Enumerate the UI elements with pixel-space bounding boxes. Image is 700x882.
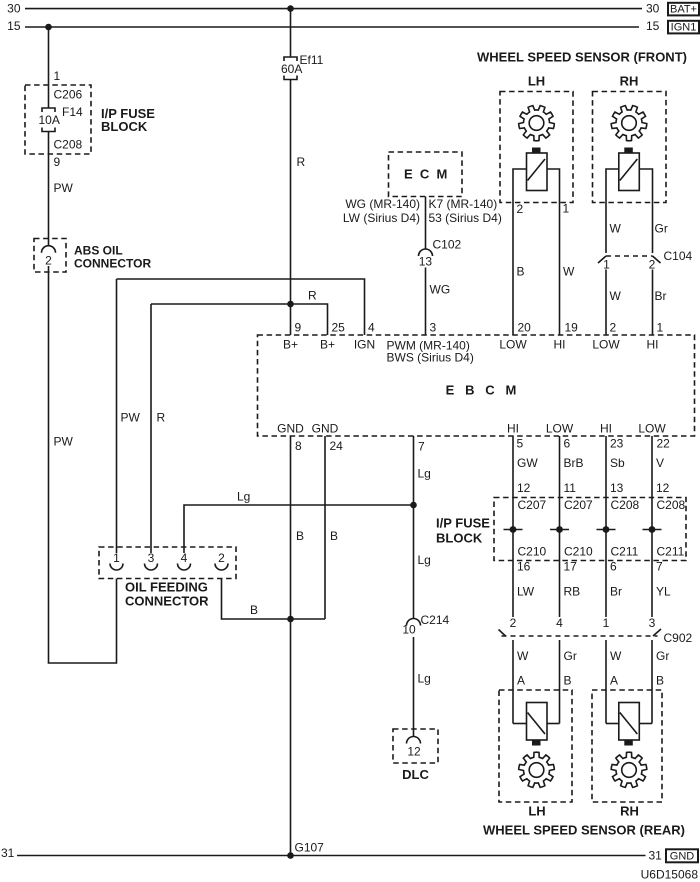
svg-text:C214: C214 — [421, 613, 450, 627]
svg-text:B: B — [250, 603, 258, 617]
svg-text:GND: GND — [670, 850, 695, 862]
LH front tone wheel (gear) — [519, 106, 555, 141]
svg-text:10A: 10A — [39, 113, 60, 127]
svg-text:Gr: Gr — [656, 649, 669, 663]
wire label Gr — [564, 649, 577, 663]
title WHEEL SPEED SENSOR (REAR) — [483, 822, 685, 837]
label RH — [620, 74, 639, 89]
svg-text:4: 4 — [181, 551, 188, 565]
wire label Sb — [610, 456, 625, 470]
pin 7 number — [418, 440, 425, 454]
wire EBCM pin to I/P fuse block col 4 — [651, 436, 653, 617]
svg-text:B+: B+ — [320, 338, 335, 352]
wire bottom elbow to oil feeding pin 1 — [49, 579, 117, 664]
svg-text:13: 13 — [610, 481, 624, 495]
connector C210 label — [518, 545, 547, 559]
DLC pin 12 (arc) — [407, 737, 421, 759]
svg-text:25: 25 — [332, 321, 346, 335]
svg-text:F14: F14 — [62, 105, 83, 119]
svg-text:12: 12 — [656, 481, 670, 495]
wire label PW — [121, 411, 141, 425]
wire EBCM pin to I/P fuse block col 3 — [605, 436, 607, 617]
svg-text:IGN: IGN — [354, 338, 375, 352]
svg-text:U6D15068: U6D15068 — [641, 868, 699, 882]
pin name HI — [507, 422, 519, 436]
wire EBCM pin to I/P fuse block col 2 — [559, 436, 561, 617]
pin 4 number — [368, 321, 375, 335]
svg-text:C210: C210 — [564, 545, 593, 559]
svg-text:R: R — [308, 289, 317, 303]
wire R branch to pin 25 — [151, 304, 328, 335]
svg-text:C210: C210 — [518, 545, 547, 559]
svg-text:17: 17 — [564, 560, 578, 574]
junction B wires — [287, 616, 294, 623]
svg-text:W: W — [610, 649, 622, 663]
label K7 (MR-140) — [429, 197, 498, 211]
svg-text:BAT+: BAT+ — [670, 4, 697, 16]
wire label BrB — [564, 456, 584, 470]
wire RH HI to pin 1 — [652, 270, 654, 336]
svg-text:Sb: Sb — [610, 456, 625, 470]
I/P FUSE BLOCK label (left) — [101, 106, 155, 134]
splice junction col 3 — [597, 526, 616, 533]
svg-text:1: 1 — [603, 616, 610, 630]
wire label Br — [610, 585, 622, 599]
svg-text:12: 12 — [407, 745, 421, 759]
wire label B — [250, 603, 258, 617]
ground G107 label — [295, 841, 325, 855]
junction bus30/Ef11 — [287, 5, 294, 12]
svg-text:Br: Br — [655, 289, 667, 303]
wire label Lg — [237, 490, 250, 504]
wire PW down-left — [48, 266, 50, 663]
wire label GW — [517, 456, 538, 470]
EBCM label — [446, 382, 527, 397]
pin 13 number — [610, 481, 624, 495]
svg-text:19: 19 — [565, 321, 579, 335]
svg-text:IGN1: IGN1 — [671, 22, 697, 34]
label box IGN1 — [668, 21, 699, 34]
wire ECM to C102 — [425, 197, 427, 250]
pin name LOW — [546, 422, 574, 436]
svg-text:3: 3 — [430, 321, 437, 335]
svg-text:LH: LH — [528, 74, 545, 89]
pin name GND — [312, 422, 339, 436]
svg-text:1: 1 — [563, 202, 570, 216]
svg-text:C208: C208 — [54, 138, 83, 152]
svg-text:Lg: Lg — [418, 553, 431, 567]
svg-text:Ef11: Ef11 — [300, 53, 324, 67]
svg-text:B: B — [296, 529, 304, 543]
splice junction col 2 — [550, 526, 569, 533]
LH pin 1 label — [563, 202, 570, 216]
svg-text:9: 9 — [295, 321, 302, 335]
svg-text:HI: HI — [507, 422, 519, 436]
svg-text:22: 22 — [657, 437, 671, 451]
svg-text:I/P FUSE: I/P FUSE — [436, 516, 490, 531]
svg-text:16: 16 — [517, 560, 531, 574]
junction bus15/F14 branch — [45, 24, 52, 31]
svg-text:LOW: LOW — [592, 338, 620, 352]
svg-text:8: 8 — [295, 439, 302, 453]
wire label PW — [54, 435, 74, 449]
junction G107 on bus 31 — [287, 852, 294, 859]
wire label W — [610, 222, 622, 236]
svg-text:BLOCK: BLOCK — [436, 531, 483, 546]
oil feeding pin 1 — [110, 551, 123, 570]
LH rear wheel speed sensor — [527, 703, 548, 746]
svg-text:HI: HI — [554, 338, 566, 352]
pin 23 number — [610, 437, 624, 451]
svg-text:23: 23 — [610, 437, 624, 451]
bus 30 (BAT+) — [7, 2, 660, 16]
connector C208 label — [54, 138, 83, 152]
pin 4 number — [556, 616, 563, 630]
svg-text:CONNECTOR: CONNECTOR — [125, 594, 209, 609]
I/P fuse block (left) dashed box — [25, 85, 91, 154]
wire label Br — [655, 289, 667, 303]
wire pin 7 down — [413, 436, 415, 619]
RH rear sensor wires — [606, 723, 652, 725]
svg-text:RB: RB — [564, 585, 581, 599]
LH front wheel speed sensor — [527, 148, 548, 191]
EBCM dashed box — [258, 335, 695, 436]
pin 2 number — [610, 321, 617, 335]
svg-text:7: 7 — [656, 560, 663, 574]
svg-text:2: 2 — [517, 202, 524, 216]
pin name LOW — [638, 422, 666, 436]
svg-text:2: 2 — [510, 616, 517, 630]
svg-text:HI: HI — [647, 338, 659, 352]
pin 7 number — [656, 560, 663, 574]
wire label Lg — [418, 467, 431, 481]
svg-text:C104: C104 — [664, 249, 693, 263]
wire label Lg — [418, 553, 431, 567]
connector C208 label — [611, 498, 640, 512]
DLC label — [402, 767, 429, 782]
svg-text:20: 20 — [518, 321, 532, 335]
svg-text:W: W — [517, 649, 529, 663]
svg-text:GND: GND — [312, 422, 339, 436]
pin 2 number — [510, 616, 517, 630]
wire label B — [330, 529, 338, 543]
svg-text:GND: GND — [277, 422, 304, 436]
RH front sensor dashed box — [593, 92, 667, 203]
svg-text:PW: PW — [54, 435, 74, 449]
RH rear tone wheel (gear) — [611, 752, 647, 787]
pin A label — [517, 674, 525, 688]
wire label B — [517, 265, 525, 279]
label LW (Sirius D4) — [343, 211, 420, 225]
wire C902 to rear sensor col 3 — [605, 640, 607, 724]
svg-text:10: 10 — [402, 623, 416, 637]
wire Ef11 to EBCM pin 9 — [290, 80, 292, 336]
pin name PWM/BWS — [387, 339, 474, 365]
svg-text:C207: C207 — [564, 498, 593, 512]
svg-text:RH: RH — [620, 74, 639, 89]
connector C902 — [499, 629, 693, 645]
pin 9 label — [54, 155, 61, 169]
pin 19 number — [565, 321, 579, 335]
wire label B — [296, 529, 304, 543]
wire label Gr — [656, 649, 669, 663]
pin 12 number — [517, 481, 531, 495]
svg-text:15: 15 — [7, 19, 21, 33]
svg-text:24: 24 — [330, 439, 344, 453]
LH rear sensor dashed box — [499, 690, 572, 802]
junction Lg — [410, 502, 417, 509]
pin 1 number — [603, 616, 610, 630]
pin name B+ — [320, 338, 335, 352]
bus 15 (IGN1) — [7, 19, 660, 33]
connector C211 label — [657, 545, 685, 559]
svg-text:W: W — [610, 222, 622, 236]
connector C210 label — [564, 545, 593, 559]
svg-text:PW: PW — [121, 411, 141, 425]
pin 24 number — [330, 439, 344, 453]
junction R branch — [287, 301, 294, 308]
wire bus30 to fuse Ef11 — [290, 9, 292, 57]
svg-text:31: 31 — [1, 846, 15, 860]
svg-text:LOW: LOW — [638, 422, 666, 436]
RH front tone wheel (gear) — [611, 106, 647, 141]
svg-text:A: A — [610, 674, 618, 688]
connector C206 label — [54, 88, 83, 102]
wire Lg pin4 to pin7 junction — [184, 505, 414, 553]
pin 20 number — [518, 321, 532, 335]
oil feeding pin 3 — [145, 551, 158, 570]
wire label R — [297, 155, 306, 169]
svg-text:2: 2 — [610, 321, 617, 335]
wire label YL — [656, 585, 671, 599]
svg-text:YL: YL — [656, 585, 671, 599]
wire EBCM pin to I/P fuse block col 1 — [512, 436, 514, 617]
label 53 (Sirius D4) — [429, 211, 502, 225]
wire label RB — [564, 585, 581, 599]
svg-text:2: 2 — [45, 254, 52, 268]
svg-text:B+: B+ — [283, 338, 298, 352]
svg-text:C211: C211 — [611, 545, 639, 559]
svg-text:C102: C102 — [433, 237, 462, 251]
connector C207 label — [518, 498, 547, 512]
svg-text:WG (MR-140): WG (MR-140) — [345, 197, 420, 211]
svg-text:C207: C207 — [518, 498, 547, 512]
wire pin2 oil feeding to GND — [222, 579, 326, 620]
wire RH LOW to pin 2 — [605, 270, 607, 336]
I/P fuse block (right) dashed box — [494, 498, 686, 561]
pin name GND — [277, 422, 304, 436]
wire PW vertical pin1 to IGN — [116, 279, 118, 553]
svg-text:4: 4 — [368, 321, 375, 335]
svg-text:1: 1 — [113, 551, 120, 565]
RH front wheel speed sensor — [619, 148, 640, 191]
svg-text:C902: C902 — [664, 631, 693, 645]
I/P FUSE BLOCK label (right) — [436, 516, 490, 546]
label WG (MR-140) — [345, 197, 420, 211]
svg-text:ABS OIL: ABS OIL — [74, 244, 123, 258]
svg-text:4: 4 — [556, 616, 563, 630]
svg-text:12: 12 — [517, 481, 531, 495]
svg-text:BLOCK: BLOCK — [101, 119, 148, 134]
pin 1 number — [657, 321, 664, 335]
ABS oil connector dashed box — [34, 239, 66, 273]
svg-text:WG: WG — [430, 283, 451, 297]
svg-text:GW: GW — [517, 456, 538, 470]
ECM label — [404, 167, 455, 182]
svg-text:OIL FEEDING: OIL FEEDING — [125, 580, 208, 595]
wire label R — [308, 289, 317, 303]
svg-text:2: 2 — [218, 551, 225, 565]
bus 31 (GND) — [1, 846, 662, 862]
wire bus15 to fuse F14 — [48, 27, 50, 108]
wire IGN horizontal — [117, 279, 365, 335]
svg-text:G107: G107 — [295, 841, 325, 855]
svg-text:30: 30 — [7, 2, 21, 16]
label RH — [620, 804, 639, 819]
wire label W — [517, 649, 529, 663]
svg-text:15: 15 — [646, 19, 660, 33]
wire label W — [563, 265, 575, 279]
label LH — [528, 74, 545, 89]
svg-text:R: R — [297, 155, 306, 169]
wire label Lg — [418, 672, 431, 686]
svg-text:C208: C208 — [657, 498, 686, 512]
title WHEEL SPEED SENSOR (FRONT) — [477, 50, 687, 65]
svg-text:C206: C206 — [54, 88, 83, 102]
pin B label — [564, 674, 572, 688]
svg-text:Lg: Lg — [418, 467, 431, 481]
wire label W — [610, 289, 622, 303]
fuse Ef11 60A — [281, 53, 324, 80]
wire GND pin 24 — [324, 436, 326, 619]
DLC dashed box — [393, 729, 438, 763]
pin name HI — [600, 422, 612, 436]
wire C902 to rear sensor col 2 — [559, 640, 561, 724]
svg-text:B: B — [330, 529, 338, 543]
pin B label — [656, 674, 664, 688]
svg-text:9: 9 — [54, 155, 61, 169]
pin name LOW — [499, 338, 527, 352]
pin name B+ — [283, 338, 298, 352]
pin 5 number — [517, 437, 524, 451]
svg-text:2: 2 — [649, 258, 656, 272]
wire label R — [157, 411, 166, 425]
oil feeding pin 4 — [178, 551, 191, 570]
svg-text:W: W — [610, 289, 622, 303]
svg-text:WHEEL SPEED SENSOR (FRONT): WHEEL SPEED SENSOR (FRONT) — [477, 50, 687, 65]
wire label PW — [54, 181, 74, 195]
svg-text:Lg: Lg — [237, 490, 250, 504]
pin 12 number — [656, 481, 670, 495]
connector C214 (arc) — [402, 613, 449, 637]
svg-text:C208: C208 — [611, 498, 640, 512]
wire label W — [610, 649, 622, 663]
svg-text:Br: Br — [610, 585, 622, 599]
svg-text:BWS (Sirius D4): BWS (Sirius D4) — [387, 351, 474, 365]
connector C211 label — [611, 545, 639, 559]
svg-text:EBCM: EBCM — [446, 382, 527, 397]
svg-text:3: 3 — [649, 616, 656, 630]
pin 6 number — [610, 560, 617, 574]
pin 6 number — [564, 437, 571, 451]
svg-text:11: 11 — [564, 481, 577, 495]
label LH — [528, 804, 545, 819]
svg-text:LW (Sirius D4): LW (Sirius D4) — [343, 211, 420, 225]
wire label WG — [430, 283, 451, 297]
label box BAT+ — [668, 3, 699, 16]
RH rear wheel speed sensor — [619, 703, 640, 746]
svg-text:Gr: Gr — [564, 649, 577, 663]
LH rear tone wheel (gear) — [519, 752, 555, 787]
wire label LW — [517, 585, 535, 599]
svg-text:7: 7 — [418, 440, 425, 454]
svg-text:1: 1 — [54, 69, 61, 83]
wire C902 to rear sensor col 1 — [512, 640, 514, 724]
splice junction col 1 — [504, 526, 523, 533]
wire C902 to rear sensor col 4 — [651, 640, 653, 724]
pin name HI — [554, 338, 566, 352]
svg-text:A: A — [517, 674, 525, 688]
wire label V — [656, 456, 664, 470]
connector C102 (arc) — [419, 237, 462, 268]
RH sensor wires — [606, 169, 653, 253]
svg-text:V: V — [656, 456, 664, 470]
ECM dashed box — [389, 152, 463, 197]
wire label Gr — [655, 222, 668, 236]
connector C207 label — [564, 498, 593, 512]
pin name IGN — [354, 338, 375, 352]
splice junction col 4 — [643, 526, 662, 533]
wire C214 to DLC — [413, 637, 415, 737]
pin 16 number — [517, 560, 531, 574]
svg-text:HI: HI — [600, 422, 612, 436]
svg-text:ECM: ECM — [404, 167, 455, 182]
svg-text:53 (Sirius D4): 53 (Sirius D4) — [429, 211, 502, 225]
svg-text:RH: RH — [620, 804, 639, 819]
svg-text:6: 6 — [564, 437, 571, 451]
svg-text:1: 1 — [657, 321, 664, 335]
wire GND pin 8 to G107 — [290, 436, 292, 856]
pin 22 number — [657, 437, 671, 451]
ABS oil connector pin 2 (arc) — [42, 246, 56, 268]
connector C104 — [598, 249, 693, 272]
svg-text:13: 13 — [419, 255, 433, 269]
svg-text:LH: LH — [528, 804, 545, 819]
pin A label — [610, 674, 618, 688]
LH rear sensor wires — [513, 723, 560, 725]
svg-text:BrB: BrB — [564, 456, 584, 470]
svg-text:C211: C211 — [657, 545, 685, 559]
svg-text:LOW: LOW — [546, 422, 574, 436]
wire F14 to ABS oil connector — [48, 132, 50, 246]
pin 9 number — [295, 321, 302, 335]
pin 17 number — [564, 560, 578, 574]
svg-text:5: 5 — [517, 437, 524, 451]
ABS OIL CONNECTOR label — [74, 244, 151, 271]
svg-text:1: 1 — [603, 258, 610, 272]
svg-text:R: R — [157, 411, 166, 425]
svg-text:B: B — [656, 674, 664, 688]
svg-text:31: 31 — [649, 849, 663, 863]
svg-text:60A: 60A — [281, 62, 302, 76]
svg-text:K7 (MR-140): K7 (MR-140) — [429, 197, 498, 211]
LH sensor wires — [513, 169, 560, 335]
pin 25 number — [332, 321, 346, 335]
LH front sensor dashed box — [500, 92, 573, 203]
pin 8 number — [295, 439, 302, 453]
svg-text:B: B — [517, 265, 525, 279]
wire C102 to EBCM pin 3 — [425, 268, 427, 336]
